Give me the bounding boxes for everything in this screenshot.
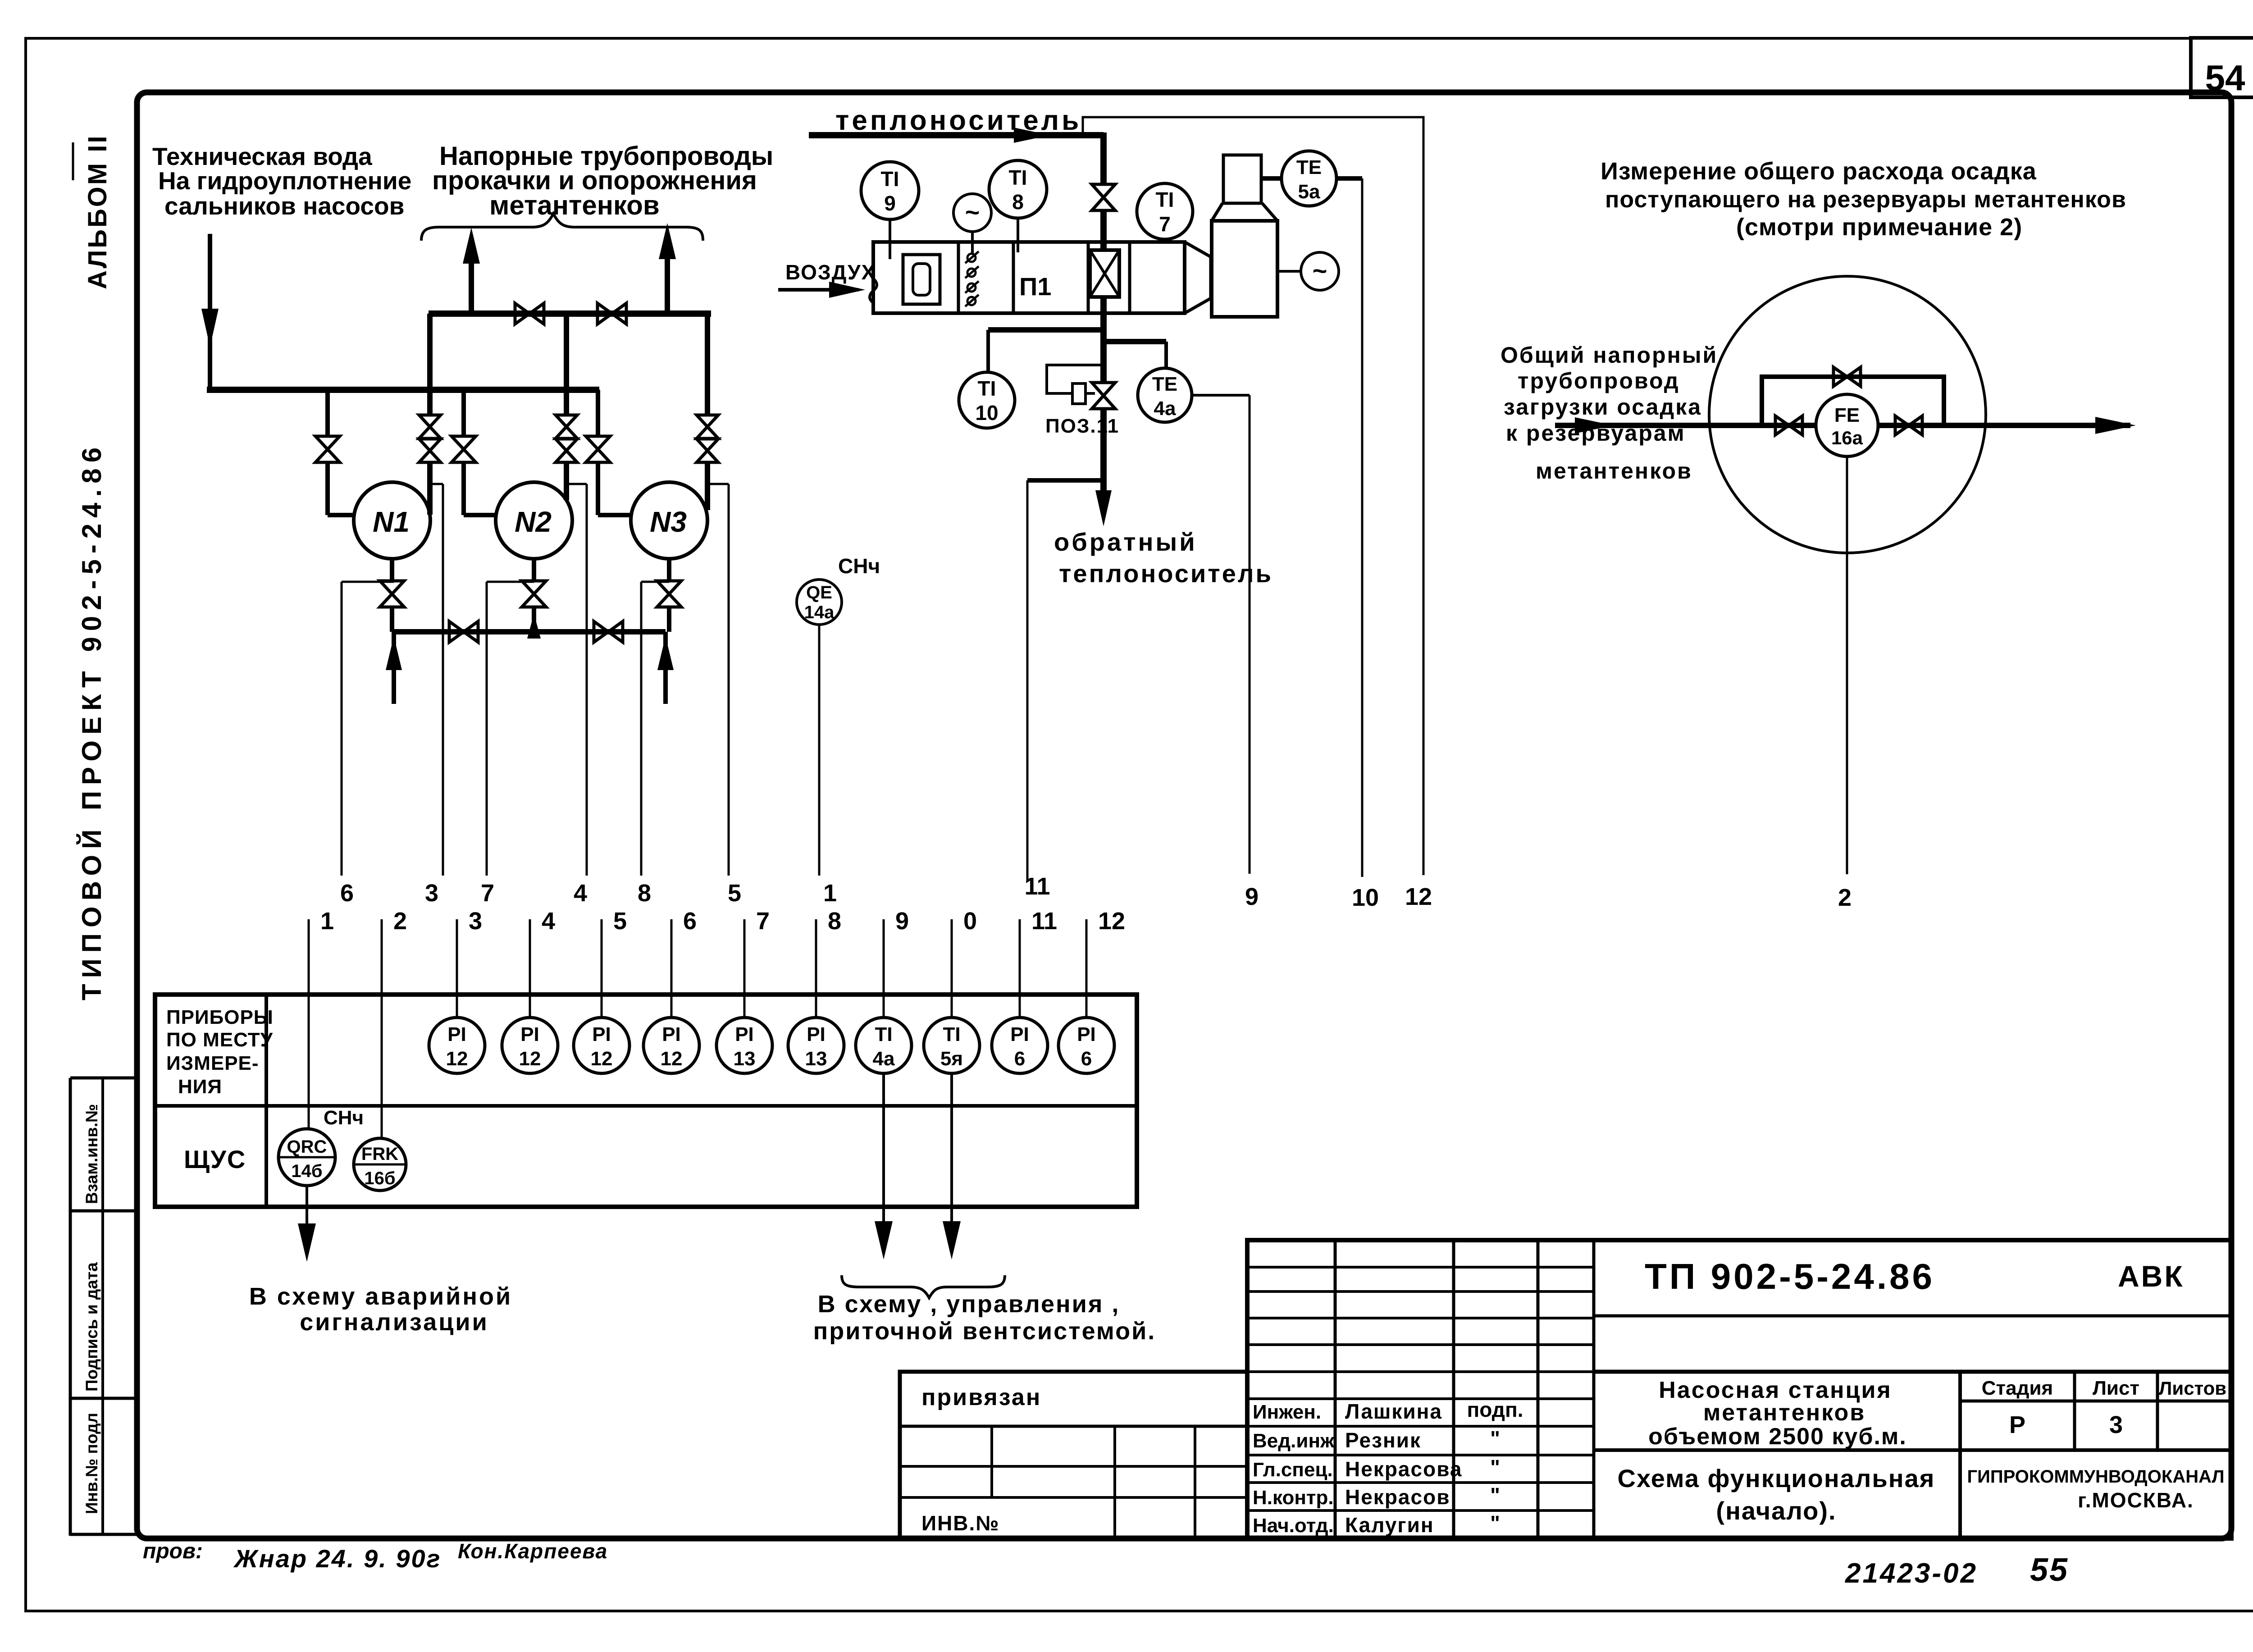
- svg-text:12: 12: [519, 1048, 541, 1070]
- svg-text:": ": [1490, 1427, 1500, 1450]
- svg-text:3: 3: [425, 880, 438, 907]
- svg-text:9: 9: [895, 908, 909, 935]
- svg-text:1: 1: [320, 908, 334, 935]
- svg-text:TI: TI: [978, 377, 996, 400]
- svg-text:": ": [1490, 1511, 1500, 1535]
- svg-text:PI: PI: [1010, 1023, 1029, 1045]
- svg-text:ИНВ.№: ИНВ.№: [921, 1511, 1000, 1535]
- svg-text:QE: QE: [806, 583, 832, 602]
- svg-text:8: 8: [828, 908, 841, 935]
- svg-text:Взам.инв.№: Взам.инв.№: [82, 1104, 101, 1204]
- svg-text:НИЯ: НИЯ: [178, 1076, 222, 1098]
- svg-text:TI: TI: [875, 1023, 892, 1045]
- svg-text:Инв.№ подл: Инв.№ подл: [82, 1413, 101, 1514]
- svg-text:4: 4: [574, 880, 587, 907]
- svg-text:0: 0: [963, 908, 977, 935]
- svg-text:9: 9: [884, 192, 896, 215]
- svg-text:метантенков: метантенков: [1703, 1400, 1865, 1426]
- svg-text:5я: 5я: [940, 1048, 963, 1070]
- svg-text:8: 8: [638, 880, 651, 907]
- svg-text:6: 6: [683, 908, 697, 935]
- svg-text:14б: 14б: [291, 1161, 322, 1181]
- svg-text:12: 12: [591, 1048, 613, 1070]
- svg-text:5а: 5а: [1298, 181, 1320, 203]
- svg-text:3: 3: [2109, 1411, 2123, 1438]
- svg-text:Листов: Листов: [2159, 1378, 2226, 1399]
- svg-text:7: 7: [481, 880, 494, 907]
- svg-text:7: 7: [1159, 212, 1171, 236]
- svg-text:12: 12: [661, 1048, 683, 1070]
- svg-text:В схему аварийной: В схему аварийной: [249, 1283, 512, 1310]
- svg-text:АВК: АВК: [2118, 1260, 2185, 1293]
- svg-text:Некрасова: Некрасова: [1345, 1457, 1462, 1481]
- svg-text:12: 12: [1098, 908, 1125, 935]
- svg-text:TE: TE: [1152, 373, 1177, 395]
- svg-text:ВОЗДУХ: ВОЗДУХ: [785, 260, 876, 284]
- svg-text:1: 1: [823, 880, 837, 907]
- svg-text:4а: 4а: [1154, 397, 1176, 420]
- svg-text:4: 4: [542, 908, 555, 935]
- svg-text:4а: 4а: [873, 1048, 895, 1070]
- svg-text:ГИПРОКОММУНВОДОКАНАЛ: ГИПРОКОММУНВОДОКАНАЛ: [1967, 1467, 2224, 1487]
- svg-text:(начало).: (начало).: [1716, 1497, 1836, 1525]
- svg-text:2: 2: [1838, 884, 1852, 911]
- svg-text:TI: TI: [881, 167, 899, 191]
- svg-text:PI: PI: [1077, 1023, 1096, 1045]
- svg-text:привязан: привязан: [921, 1384, 1041, 1410]
- svg-text:FE: FE: [1834, 404, 1860, 426]
- svg-text:пров:: пров:: [143, 1539, 203, 1563]
- svg-text:3: 3: [469, 908, 482, 935]
- svg-text:N3: N3: [650, 506, 687, 538]
- svg-text:Калугин: Калугин: [1345, 1513, 1434, 1537]
- svg-text:ПО МЕСТУ: ПО МЕСТУ: [166, 1029, 273, 1051]
- svg-text:Подпись и дата: Подпись и дата: [82, 1262, 101, 1392]
- svg-text:объемом 2500 куб.м.: объемом 2500 куб.м.: [1648, 1424, 1907, 1450]
- svg-text:поступающего на резервуары ме: поступающего на резервуары метантенков: [1605, 187, 2126, 213]
- svg-text:5: 5: [613, 908, 627, 935]
- svg-text:TI: TI: [1009, 166, 1027, 189]
- svg-text:Гл.спец.: Гл.спец.: [1253, 1459, 1333, 1481]
- svg-text:Общий напорный: Общий напорный: [1500, 342, 1718, 368]
- svg-text:г.МОСКВА.: г.МОСКВА.: [2078, 1488, 2194, 1512]
- svg-text:PI: PI: [592, 1023, 611, 1045]
- svg-text:9: 9: [1245, 883, 1259, 910]
- svg-text:6: 6: [340, 880, 354, 907]
- svg-text:Вед.инж: Вед.инж: [1253, 1430, 1335, 1452]
- svg-text:Н.контр.: Н.контр.: [1253, 1487, 1334, 1509]
- svg-text:~: ~: [1313, 256, 1327, 285]
- svg-text:TI: TI: [1156, 188, 1174, 211]
- svg-text:12: 12: [1405, 883, 1432, 910]
- svg-text:ТI: ТI: [943, 1023, 960, 1045]
- svg-text:PI: PI: [807, 1023, 825, 1045]
- svg-text:16а: 16а: [1831, 427, 1863, 448]
- svg-text:QRC: QRC: [287, 1137, 327, 1157]
- svg-text:АЛЬБОМ II: АЛЬБОМ II: [83, 134, 112, 289]
- svg-text:2: 2: [393, 908, 407, 935]
- svg-text:": ": [1490, 1483, 1500, 1507]
- svg-text:Измерение общего расхода осадк: Измерение общего расхода осадка: [1601, 158, 2037, 185]
- svg-text:ТП 902-5-24.86: ТП 902-5-24.86: [1645, 1256, 1935, 1296]
- svg-text:Лашкина: Лашкина: [1345, 1400, 1442, 1423]
- svg-text:N1: N1: [373, 506, 410, 538]
- svg-text:трубопровод: трубопровод: [1518, 368, 1680, 393]
- svg-text:13: 13: [805, 1048, 827, 1070]
- svg-text:приточной вентсистемой.: приточной вентсистемой.: [813, 1318, 1156, 1345]
- svg-text:В схему , управления ,: В схему , управления ,: [818, 1291, 1120, 1318]
- svg-text:Р: Р: [2009, 1411, 2025, 1438]
- svg-text:СНч: СНч: [324, 1107, 364, 1129]
- svg-text:FRK: FRK: [361, 1144, 398, 1164]
- svg-text:~: ~: [965, 198, 980, 226]
- svg-text:PI: PI: [520, 1023, 539, 1045]
- svg-text:55: 55: [2030, 1552, 2069, 1588]
- svg-text:ПРИБОРЫ: ПРИБОРЫ: [166, 1006, 274, 1028]
- svg-text:сигнализации: сигнализации: [300, 1309, 489, 1336]
- svg-text:ИЗМЕРЕ-: ИЗМЕРЕ-: [166, 1052, 259, 1074]
- svg-text:обратный: обратный: [1054, 528, 1197, 556]
- svg-text:теплоноситель: теплоноситель: [1059, 559, 1273, 588]
- svg-text:7: 7: [756, 908, 770, 935]
- svg-text:Схема функциональная: Схема функциональная: [1618, 1464, 1935, 1492]
- svg-text:Инжен.: Инжен.: [1253, 1401, 1321, 1423]
- svg-text:Кон.Карпеева: Кон.Карпеева: [458, 1539, 608, 1563]
- svg-text:загрузки осадка: загрузки осадка: [1504, 394, 1702, 420]
- svg-text:Резник: Резник: [1345, 1428, 1421, 1452]
- svg-text:Жнар 24. 9. 90г: Жнар 24. 9. 90г: [233, 1544, 442, 1573]
- svg-text:сальников насосов: сальников насосов: [164, 192, 404, 220]
- svg-text:14а: 14а: [804, 602, 835, 622]
- svg-text:5: 5: [728, 880, 741, 907]
- svg-text:(смотри примечание 2): (смотри примечание 2): [1736, 214, 2022, 241]
- svg-text:П1: П1: [1019, 272, 1051, 301]
- svg-text:TE: TE: [1296, 156, 1322, 178]
- svg-text:Лист: Лист: [2093, 1377, 2139, 1399]
- svg-text:PI: PI: [447, 1023, 466, 1045]
- svg-text:метантенков: метантенков: [489, 190, 660, 220]
- svg-text:ЩУС: ЩУС: [184, 1145, 246, 1173]
- svg-text:10: 10: [1352, 884, 1379, 911]
- svg-text:Нач.отд.: Нач.отд.: [1253, 1515, 1334, 1537]
- svg-text:11: 11: [1031, 908, 1057, 935]
- svg-text:12: 12: [446, 1048, 468, 1070]
- svg-text:СНч: СНч: [838, 554, 880, 578]
- svg-text:теплоноситель: теплоноситель: [835, 105, 1081, 136]
- svg-text:подп.: подп.: [1467, 1398, 1523, 1421]
- svg-text:10: 10: [975, 401, 998, 424]
- svg-text:PI: PI: [735, 1023, 754, 1045]
- svg-text:Стадия: Стадия: [1982, 1377, 2053, 1399]
- svg-text:8: 8: [1012, 190, 1024, 214]
- svg-text:метантенков: метантенков: [1536, 458, 1692, 484]
- svg-text:PI: PI: [662, 1023, 681, 1045]
- svg-text:N2: N2: [515, 506, 552, 538]
- svg-text:На гидроуплотнение: На гидроуплотнение: [158, 167, 411, 195]
- svg-text:6: 6: [1081, 1048, 1092, 1070]
- svg-text:Некрасов: Некрасов: [1345, 1485, 1450, 1509]
- svg-text:ТИПОВОЙ ПРОЕКТ 902-5-24.86: ТИПОВОЙ ПРОЕКТ 902-5-24.86: [77, 442, 107, 1000]
- svg-text:16б: 16б: [364, 1168, 395, 1188]
- svg-text:Техническая вода: Техническая вода: [152, 142, 372, 170]
- svg-text:ПОЗ.11: ПОЗ.11: [1045, 415, 1119, 437]
- svg-text:13: 13: [734, 1048, 756, 1070]
- svg-text:6: 6: [1014, 1048, 1025, 1070]
- svg-text:21423-02: 21423-02: [1845, 1558, 1978, 1589]
- svg-text:": ": [1490, 1456, 1500, 1479]
